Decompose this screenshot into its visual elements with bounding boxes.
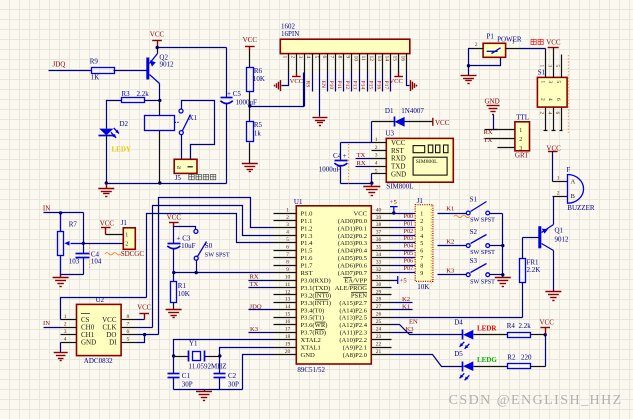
wire bottom to ground — [61, 274, 84, 276]
svg-text:R9: R9 — [90, 57, 99, 65]
net K3 stub (U1 pin24) — [392, 332, 413, 334]
svg-text:2: 2 — [289, 56, 295, 59]
wire Q1 base to FR1 — [523, 237, 539, 239]
svg-text:P17: P17 — [383, 81, 389, 90]
svg-text:EN: EN — [409, 319, 418, 326]
crystal Y1 11.0592MHZ — [174, 356, 189, 358]
net JDQ stub (U1 P3.4) — [249, 309, 274, 311]
svg-text:16: 16 — [285, 319, 291, 325]
svg-text:GRT: GRT — [515, 152, 529, 160]
wire GND pin20 down — [243, 355, 274, 390]
svg-text:2: 2 — [539, 98, 545, 101]
svg-text:2.2k: 2.2k — [137, 90, 150, 98]
svg-text:29: 29 — [376, 289, 382, 295]
svg-text:(A8)P2.0: (A8)P2.0 — [343, 352, 368, 359]
wire R4 to VCC — [531, 334, 546, 336]
svg-text:3: 3 — [64, 329, 67, 335]
svg-text:P1: P1 — [487, 33, 495, 41]
capacitor C4 (104) — [83, 244, 85, 254]
wire LCD pin5 to ground — [319, 73, 321, 117]
svg-text:LEDG: LEDG — [477, 356, 497, 364]
wire EN / U1 pin25 to D4 — [392, 325, 463, 335]
svg-text:D4: D4 — [454, 318, 463, 326]
resistor R2 220 — [508, 364, 531, 369]
svg-text:SIM800L: SIM800L — [386, 183, 413, 191]
svg-text:P15: P15 — [367, 81, 373, 90]
svg-text:K3: K3 — [406, 326, 415, 333]
resistor R9 — [92, 68, 115, 74]
resistor R1 10K — [171, 282, 177, 303]
svg-text:GND: GND — [391, 170, 406, 178]
capacitor C4 1000uF — [341, 142, 372, 144]
relay contact K1 switch — [179, 109, 183, 113]
wire U1 pin21 to D5 — [392, 355, 463, 367]
wire VCC to C3 and S0 — [173, 227, 175, 244]
capacitor C5 — [226, 48, 228, 98]
svg-text:K2: K2 — [446, 238, 454, 245]
wire D1 to U3 VCC pin — [371, 122, 373, 143]
wire relay bottom to rail — [159, 131, 161, 184]
capacitor C3 10uF — [168, 243, 181, 245]
wire Q2 collector to relay — [159, 84, 161, 101]
svg-text:TXD: TXD — [391, 163, 405, 171]
U3 module graphics — [413, 145, 448, 175]
svg-text:P1.7: P1.7 — [301, 263, 314, 270]
svg-text:1: 1 — [539, 65, 545, 68]
svg-text:P14: P14 — [360, 81, 366, 90]
svg-text:103: 103 — [69, 258, 80, 266]
svg-text:(A12)P2.4: (A12)P2.4 — [339, 322, 367, 329]
svg-text:(A15)P2.7: (A15)P2.7 — [339, 300, 367, 307]
ground (D2/relay rail) — [105, 181, 108, 184]
svg-text:30: 30 — [376, 282, 382, 288]
U3 pins 1-5 — [372, 142, 387, 144]
svg-text:K3: K3 — [446, 267, 455, 274]
svg-text:4: 4 — [305, 56, 311, 59]
svg-text:5: 5 — [420, 241, 423, 247]
svg-text:RST: RST — [391, 147, 405, 155]
svg-text:9012: 9012 — [160, 61, 175, 69]
svg-text:J1: J1 — [417, 197, 424, 205]
svg-text:6: 6 — [554, 112, 560, 115]
svg-text:RXD: RXD — [391, 155, 406, 163]
svg-text:J1: J1 — [121, 219, 128, 227]
U1 overline marks — [315, 277, 367, 329]
orange marker near C4' — [89, 244, 91, 268]
wire U2 CS up to bus — [61, 298, 147, 320]
svg-text:36: 36 — [376, 237, 382, 243]
svg-text:C2: C2 — [228, 372, 237, 380]
svg-text:D2: D2 — [120, 120, 129, 128]
svg-text:8: 8 — [420, 264, 423, 270]
svg-text:C4: C4 — [333, 152, 342, 160]
svg-text:2.2k: 2.2k — [519, 322, 532, 330]
svg-text:A: A — [571, 179, 576, 186]
svg-text:P3.0(RXD): P3.0(RXD) — [301, 277, 331, 284]
svg-text:GND: GND — [81, 339, 96, 347]
svg-text:RST: RST — [301, 270, 313, 277]
svg-text:2: 2 — [557, 190, 560, 196]
ground (R5) — [242, 163, 258, 165]
power +5 (U1 pin31 EA) — [392, 280, 398, 282]
svg-text:(A14)P2.6: (A14)P2.6 — [339, 307, 367, 314]
wire FR1 to U1 pin26 — [522, 283, 524, 318]
svg-text:(AD5)P0.5: (AD5)P0.5 — [338, 255, 368, 262]
svg-text:3: 3 — [420, 226, 423, 232]
svg-text:S2: S2 — [470, 228, 478, 236]
svg-text:P04: P04 — [404, 243, 414, 250]
svg-text:9: 9 — [286, 267, 289, 273]
svg-text:P16: P16 — [375, 81, 381, 90]
svg-text:D1: D1 — [385, 107, 394, 115]
LCD pin1 wire to ground — [282, 73, 289, 86]
svg-text:(A9)P2.1: (A9)P2.1 — [343, 345, 367, 352]
svg-text:TX: TX — [484, 137, 493, 144]
svg-text:P00: P00 — [404, 213, 414, 220]
svg-text:U3: U3 — [385, 130, 394, 138]
svg-text:89C51/52: 89C51/52 — [297, 366, 325, 374]
svg-text:XTAL1: XTAL1 — [301, 345, 321, 352]
ground (U3/C4) — [371, 184, 373, 187]
wire bus P1.2 to ADC DO/DI — [159, 198, 274, 335]
ground (R7/C4) — [60, 275, 62, 278]
svg-text:C1: C1 — [182, 372, 191, 380]
svg-text:7: 7 — [127, 321, 130, 327]
svg-text:VCC: VCC — [290, 78, 304, 85]
svg-text:+5: +5 — [390, 199, 398, 206]
svg-text:3: 3 — [547, 81, 553, 84]
svg-text:TTL: TTL — [516, 114, 529, 122]
svg-text:K1: K1 — [402, 303, 410, 310]
svg-text:1: 1 — [557, 176, 560, 182]
svg-text:13: 13 — [376, 56, 382, 62]
svg-text:SW SPST: SW SPST — [470, 249, 495, 256]
switch S2 SW SPST — [466, 244, 470, 248]
net RX stub (U3 TXD) — [356, 166, 372, 168]
wire R5 to ground — [249, 143, 251, 164]
svg-text:VCC: VCC — [150, 30, 165, 38]
wire switch common down — [502, 214, 504, 278]
svg-text:X1: X1 — [189, 114, 198, 122]
svg-text:39: 39 — [376, 215, 382, 221]
svg-text:RS: RS — [304, 81, 310, 88]
svg-text:1: 1 — [286, 207, 289, 213]
svg-text:GND: GND — [485, 98, 500, 106]
svg-text:(A11)P2.3: (A11)P2.3 — [340, 330, 368, 337]
svg-text:40: 40 — [376, 207, 382, 213]
wire VCC to R6 — [249, 51, 251, 68]
svg-text:8: 8 — [286, 259, 289, 265]
svg-text:1K: 1K — [91, 74, 100, 82]
label dian-yuan (red) — [531, 39, 536, 44]
power VCC (U2 pin8) — [137, 319, 145, 321]
svg-text:(AD4)P0.4: (AD4)P0.4 — [338, 248, 368, 255]
ground (U2) — [54, 352, 68, 354]
wire D2 cathode to ground rail — [106, 136, 108, 184]
resistor R5 — [247, 122, 254, 142]
wire U1 pin26 to FR1 — [392, 317, 523, 319]
U1 pins left 1-20 — [274, 213, 297, 215]
svg-text:P1.5: P1.5 — [301, 248, 314, 255]
svg-text:K3: K3 — [250, 326, 259, 333]
svg-text:P1.2: P1.2 — [301, 225, 313, 232]
svg-text:1: 1 — [539, 81, 545, 84]
wire R3 left to D2 — [107, 101, 122, 127]
svg-text:VCC: VCC — [353, 210, 367, 217]
svg-text:LEDY: LEDY — [112, 146, 131, 154]
net IN wire (U2 CH0) — [44, 327, 61, 329]
svg-text:RX: RX — [357, 160, 366, 167]
svg-text:ADC0832: ADC0832 — [84, 357, 113, 365]
wire switch return — [469, 58, 501, 66]
svg-text:11: 11 — [285, 282, 291, 288]
svg-text:5: 5 — [375, 168, 378, 174]
wire ground rail to C5 bottom — [107, 183, 227, 185]
svg-text:P12: P12 — [344, 81, 350, 90]
svg-text:4: 4 — [375, 161, 378, 167]
svg-text:VCC: VCC — [540, 319, 555, 327]
net RX stub (U1 P3.0) — [249, 280, 274, 282]
svg-text:F: F — [566, 166, 570, 174]
connector J5 — [174, 159, 197, 173]
svg-text:22: 22 — [376, 341, 382, 347]
wire IN to wiper column — [83, 213, 85, 244]
svg-text:(AD6)P0.6: (AD6)P0.6 — [338, 263, 368, 270]
svg-text:3: 3 — [297, 56, 303, 59]
wire bus P1.4 to ADC CS — [147, 214, 274, 298]
svg-text:S1: S1 — [470, 196, 478, 204]
svg-text:2: 2 — [286, 215, 289, 221]
svg-text:RX: RX — [250, 274, 259, 281]
svg-text:2: 2 — [475, 42, 478, 48]
svg-text:P10: P10 — [328, 81, 334, 90]
svg-text:SW SPST: SW SPST — [470, 217, 495, 224]
svg-text:5: 5 — [127, 337, 130, 343]
svg-text:2: 2 — [420, 219, 423, 225]
svg-text:2.2K: 2.2K — [527, 266, 541, 274]
svg-text:EN: EN — [320, 81, 326, 88]
svg-text:38: 38 — [376, 222, 382, 228]
wire C3 to RST rail — [173, 249, 175, 282]
net stubs LCD pins 4,6-14 — [312, 73, 314, 92]
svg-text:1: 1 — [282, 56, 288, 59]
svg-text:1: 1 — [125, 233, 128, 239]
svg-text:VCC: VCC — [391, 139, 406, 147]
resistor R3 — [122, 98, 145, 103]
svg-text:K2: K2 — [402, 296, 410, 303]
svg-text:3: 3 — [375, 153, 378, 159]
svg-text:DI: DI — [109, 339, 117, 347]
U2 pins — [61, 319, 77, 321]
svg-text:4: 4 — [64, 337, 67, 343]
orange squiggle under S1 — [454, 215, 470, 217]
wire Q1 collector to ground — [553, 251, 555, 292]
svg-text:VCC: VCC — [167, 213, 182, 221]
svg-text:10: 10 — [285, 274, 291, 280]
svg-text:R1: R1 — [178, 282, 187, 290]
svg-text:2: 2 — [125, 241, 128, 247]
dotted link relay to contact — [175, 121, 180, 123]
wire crystal ground rail — [174, 389, 243, 391]
label jie-xian-duan-zi terminal text — [189, 174, 194, 179]
svg-text:LEDR: LEDR — [477, 324, 497, 332]
svg-text:20: 20 — [285, 349, 291, 355]
wire GND to TTL pin1 — [494, 115, 498, 130]
svg-text:7: 7 — [329, 56, 335, 59]
svg-text:35: 35 — [376, 245, 382, 251]
svg-text:23: 23 — [376, 334, 382, 340]
svg-text:3: 3 — [286, 222, 289, 228]
svg-text:24: 24 — [376, 327, 382, 333]
svg-text:9: 9 — [344, 56, 350, 59]
svg-text:P3.5(T1): P3.5(T1) — [301, 315, 325, 322]
svg-text:Q1: Q1 — [555, 227, 564, 235]
svg-text:EA/VPP: EA/VPP — [344, 277, 367, 284]
svg-text:+5: +5 — [400, 278, 408, 285]
svg-text:6: 6 — [127, 329, 130, 335]
svg-text:12: 12 — [285, 289, 291, 295]
svg-text:1N4007: 1N4007 — [401, 107, 424, 115]
ground (P1) — [461, 75, 477, 77]
wire S1 to common — [490, 213, 503, 215]
svg-text:(AD0)P0.0: (AD0)P0.0 — [338, 218, 368, 225]
net TX stub (U1 P3.1) — [249, 287, 274, 289]
wire LCD pin3 contrast — [304, 73, 306, 107]
svg-text:BUZZER: BUZZER — [567, 204, 595, 212]
svg-text:P01: P01 — [404, 220, 414, 227]
svg-text:2: 2 — [64, 321, 67, 327]
wires P0.0-P0.7 to RP J1 — [392, 220, 416, 222]
wire IN node — [44, 212, 84, 214]
svg-text:10uF: 10uF — [181, 242, 196, 250]
svg-text:TX: TX — [250, 281, 259, 288]
svg-text:(AD2)P0.2: (AD2)P0.2 — [338, 233, 367, 240]
svg-text:P3.3(INT1): P3.3(INT1) — [301, 300, 332, 307]
svg-text:5: 5 — [555, 81, 561, 84]
wire buzzer pin2 to Q1 — [553, 197, 555, 225]
wire wiper to J1 pin2 — [84, 243, 124, 245]
svg-text:VCC: VCC — [243, 36, 258, 44]
svg-text:P1.1: P1.1 — [301, 218, 313, 225]
svg-text:+: + — [343, 152, 347, 160]
svg-text:10K: 10K — [178, 290, 190, 298]
svg-text:9: 9 — [420, 271, 423, 277]
svg-text:B: B — [571, 193, 576, 200]
svg-text:P3.1(TXD): P3.1(TXD) — [301, 285, 331, 292]
wire bus P1.3 to ADC CLK — [153, 206, 274, 328]
U1 pins right 40-21 — [372, 213, 392, 215]
power VCC (LCD pin15) — [398, 73, 400, 77]
svg-text:SIM800L: SIM800L — [416, 159, 438, 165]
svg-text:≈: ≈ — [177, 163, 181, 172]
svg-text:CSDN @ENGLISH_HHZ: CSDN @ENGLISH_HHZ — [449, 393, 623, 408]
svg-text:(A10)P2.2: (A10)P2.2 — [339, 337, 367, 344]
transistor Q1 9012 — [538, 226, 541, 248]
svg-text:(AD7)P0.7: (AD7)P0.7 — [338, 270, 368, 277]
svg-text:14: 14 — [384, 56, 390, 62]
svg-text:4: 4 — [286, 230, 289, 236]
svg-text:P11: P11 — [336, 81, 342, 90]
svg-text:P1.0: P1.0 — [301, 210, 314, 217]
wire U2 DI joins DO — [137, 335, 145, 343]
wire U2 GND to ground — [60, 343, 62, 353]
resistor R6 — [247, 68, 254, 92]
svg-text:32: 32 — [376, 267, 382, 273]
svg-text:4: 4 — [420, 234, 423, 240]
switch S3 SW SPST — [466, 273, 470, 277]
svg-text:+ C5: + C5 — [227, 90, 241, 98]
wire R2 to VCC column — [531, 366, 546, 368]
ground (switches) — [495, 277, 511, 279]
svg-text:12: 12 — [368, 56, 374, 62]
svg-text:19: 19 — [285, 341, 291, 347]
wire contact top loop to J5 — [182, 101, 215, 160]
wire S3 to common — [490, 274, 503, 276]
potentiometer R7 — [60, 213, 62, 232]
wire C4 to U3 GND — [341, 183, 372, 185]
svg-text:P03: P03 — [404, 235, 414, 242]
svg-text:5: 5 — [554, 65, 560, 68]
svg-text:11: 11 — [360, 56, 366, 62]
svg-text:25: 25 — [376, 319, 382, 325]
wire XTAL1 to C2 — [220, 348, 274, 374]
svg-text:P3.4(T0): P3.4(T0) — [301, 307, 325, 314]
wire P1 pin2 to ground — [469, 49, 474, 76]
net K2 stub (U1 pin28) — [392, 302, 413, 304]
svg-text:J5: J5 — [175, 174, 182, 182]
svg-text:POWER: POWER — [497, 36, 522, 44]
svg-text:P3.7(RD): P3.7(RD) — [301, 330, 326, 337]
wire R3 right to collector node — [145, 100, 160, 102]
power VCC (after D1) — [432, 118, 434, 126]
wire R6 to R5 with V0 tap — [249, 92, 251, 122]
power VCC (LCD pin2) — [296, 73, 298, 77]
net TX stub (U3 RXD) — [356, 158, 372, 160]
transistor Q2 — [146, 58, 149, 80]
svg-text:1: 1 — [512, 40, 515, 46]
wire U2 DO to bus — [137, 334, 159, 336]
svg-text:30P: 30P — [228, 380, 239, 388]
svg-text:S1: S1 — [538, 69, 546, 77]
wire contact bottom to J5 — [181, 135, 183, 160]
svg-text:VCC: VCC — [100, 220, 115, 228]
svg-text:9012: 9012 — [555, 236, 570, 244]
LED D2 — [99, 129, 113, 136]
svg-text:VCC: VCC — [389, 78, 403, 85]
svg-text:1: 1 — [420, 211, 423, 217]
svg-text:GND: GND — [301, 352, 316, 359]
svg-text:P1.4: P1.4 — [301, 240, 314, 247]
ground (LCD pin1, rotated) — [280, 80, 282, 91]
svg-text:VCC: VCC — [546, 39, 561, 47]
ground (LCD pin16, rotated) — [410, 80, 412, 91]
svg-text:RX: RX — [484, 129, 493, 136]
svg-text:220: 220 — [521, 353, 532, 361]
svg-text:JDQ: JDQ — [53, 60, 66, 68]
svg-text:6: 6 — [555, 98, 561, 101]
svg-text:16: 16 — [399, 56, 405, 62]
wire P1 pin1 to VCC rail — [520, 48, 546, 50]
svg-text:P1.3: P1.3 — [301, 233, 314, 240]
svg-text:D5: D5 — [454, 350, 463, 358]
svg-text:8: 8 — [127, 314, 130, 320]
svg-text:(AD3)P0.3: (AD3)P0.3 — [338, 240, 368, 247]
svg-text:18: 18 — [285, 334, 291, 340]
svg-text:8: 8 — [337, 56, 343, 59]
svg-text:Y1: Y1 — [189, 340, 198, 348]
switch S1 SW SPST — [466, 211, 470, 215]
svg-text:104: 104 — [91, 258, 102, 266]
